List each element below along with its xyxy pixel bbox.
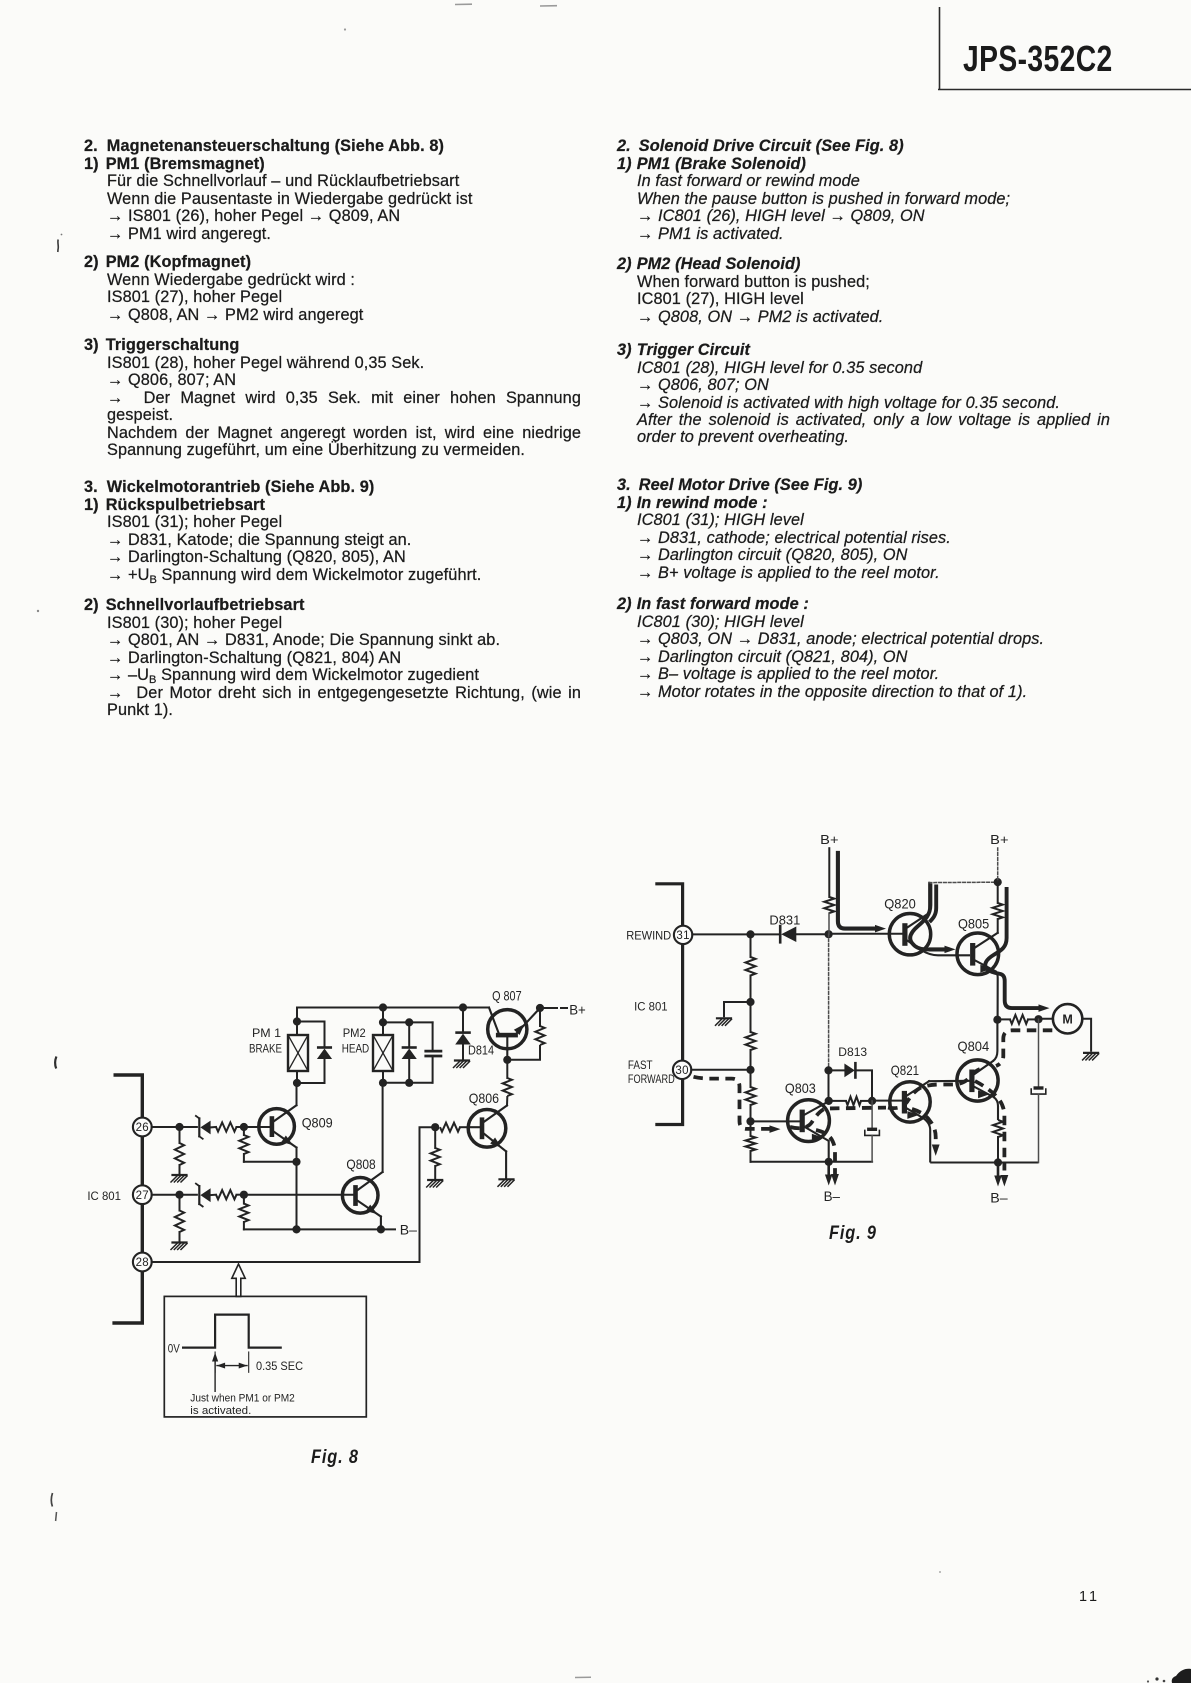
IC801 bus bracket (Fig.8) [112,1075,142,1323]
svg-text:HEAD: HEAD [342,1042,370,1056]
svg-text:Q805: Q805 [958,916,989,932]
svg-text:27: 27 [136,1190,149,1202]
pin 27 [133,1185,152,1204]
node Q807 base [503,1056,511,1064]
ground (divider) [716,1018,732,1025]
wire D813 anode to collector node [828,1070,830,1101]
left column German text [84,138,473,243]
node PM2 top rail [379,1003,387,1011]
resistor to ground (pin26) [175,1127,184,1174]
node PM1 bottom [293,1079,301,1087]
resistor to ground (Q806 base) [431,1127,440,1179]
wire Q806 emitter to ground [505,1151,507,1178]
ground (Q806 emitter) [498,1179,514,1186]
resistor pin27 to B- line [239,1195,248,1230]
dashed FF path near motor [996,1030,1052,1066]
annotation arrow [212,1353,218,1392]
motor M [1053,1004,1082,1033]
svg-text:0V: 0V [168,1343,180,1356]
D831 label [769,913,800,928]
transistor Q807 [488,1008,540,1060]
resistor to ground (pin27) [175,1195,184,1242]
top supply rail Fig.8 [297,1008,489,1022]
svg-text:Q821: Q821 [891,1062,919,1078]
wire Q809 collector to PM1 [296,1083,298,1105]
dashed FF path through Q803 [790,1108,886,1129]
node motor resistor right [1034,1015,1042,1023]
pin 30 [673,1061,691,1079]
svg-text:M: M [1062,1013,1072,1027]
wire B+ left drop [828,848,830,897]
ground (motor) [1083,1053,1099,1060]
FAST FORWARD label [628,1059,675,1086]
figure captions [311,1447,359,1469]
B+ label right (Fig.9) [990,832,1008,847]
ground (pin27 resistor) [171,1243,187,1250]
REWIND label [626,930,671,943]
node Q806 base divider [431,1123,439,1131]
dashed FF branch to B- (left) [816,1130,839,1186]
resistor Q805 collector [993,882,1003,933]
annotation text [190,1393,294,1418]
svg-text:B+: B+ [569,1003,586,1018]
D814 label [468,1043,494,1058]
Q820 label [884,896,916,912]
node pin30 row [746,1066,754,1074]
wire Q808 collector to PM2 [382,1083,384,1172]
wire Q821 base [872,1100,902,1102]
svg-text:Q 807: Q 807 [492,988,522,1004]
B- arrow right solid [994,1163,1002,1187]
pin 31 [674,926,692,944]
svg-text:B–: B– [400,1223,418,1238]
svg-text:D814: D814 [468,1043,494,1058]
B- rail Fig.8 [244,1228,395,1230]
resistor Q807 base feed [503,1060,512,1106]
node D813 anode [824,1066,832,1074]
resistor motor feed [997,1015,1038,1024]
dashed FF path through Q821/Q804 [888,1068,983,1108]
dashed FF path pin30 [694,1077,781,1133]
Q803 label [785,1080,816,1096]
wire to ground stub [724,1002,751,1017]
resistor divider upper (pin31) [746,934,756,1002]
wire pin31 row [692,933,780,935]
wire Q803 base [751,1120,801,1122]
wire to motor [1039,1018,1053,1020]
zener diode (pin26) [196,1116,216,1139]
transistor Q820 [889,883,970,956]
svg-text:D813: D813 [838,1045,867,1059]
node B- / emitter line [292,1225,300,1233]
Q821 label [891,1062,919,1078]
diode D831 [780,926,828,942]
pulse waveform [182,1315,282,1348]
PM1 label [249,1026,282,1056]
thick rewind path from B+ [838,851,886,932]
transistor Q804 [957,1020,998,1120]
node PM2 bottom [379,1079,387,1087]
node Q809 emitter [292,1148,300,1166]
B- label left [824,1189,841,1204]
B+ label Fig.8 [569,1003,586,1018]
B- label right [990,1191,1008,1206]
Q808 label [346,1156,375,1172]
0.35 SEC label [256,1359,303,1373]
svg-text:B–: B– [990,1191,1008,1206]
svg-text:Q804: Q804 [958,1038,990,1054]
zener diode (pin27) [196,1184,216,1207]
flyback diode (PM1) [297,1022,332,1084]
page number [1079,1589,1100,1605]
ground (Q806 base resistor) [427,1180,443,1187]
wire base Q809 [244,1126,270,1128]
resistor B+ left [824,897,834,913]
transistor Q806 [468,1106,507,1152]
resistor Q803 collector to Q821 base [829,1097,872,1105]
dashed FF path Q804 to B- [975,1081,1004,1158]
node emitter rail / B- left [825,1158,833,1166]
0.35 sec dimension arrows [217,1363,248,1369]
B- arrow right dashed [1001,1163,1009,1187]
svg-text:28: 28 [136,1257,149,1269]
svg-text:PM2: PM2 [343,1026,366,1040]
wire to Q820 base [829,933,903,935]
node B+ rail Fig.8 [536,1004,544,1012]
IC801 label (Fig.9) [634,1001,668,1014]
resistor Q804 emitter [993,1120,1003,1163]
svg-text:Q806: Q806 [469,1090,499,1106]
node pin27/R [175,1191,183,1199]
capacitor (PM2) [426,1022,441,1082]
Q807 label [492,988,522,1004]
dashed FF branch Q821 emitter arrow [912,1109,940,1156]
svg-text:26: 26 [136,1122,149,1134]
B- label Fig.8 [400,1223,418,1238]
B+ label left (Fig.9) [820,832,838,847]
wire pin30 row [691,1069,750,1071]
wire pin26 row [152,1126,197,1128]
svg-text:B+: B+ [820,832,838,847]
svg-text:Q808: Q808 [346,1156,375,1172]
node Q803 base row [746,1117,754,1125]
node Q809 base [240,1123,248,1131]
emitter return rail (right) [930,1162,1038,1164]
transistor Q803 [788,1100,830,1162]
node B- right [994,1158,1002,1166]
D813 label [838,1045,867,1059]
capacitor (Q821 base) [865,1101,880,1162]
svg-text:B+: B+ [990,832,1008,847]
svg-text:Q803: Q803 [785,1080,816,1096]
wire motor to ground [1082,1019,1091,1052]
wire emitter node down to B- line [296,1162,298,1230]
diode D813 [829,1063,873,1101]
node Q808 base branch [240,1191,248,1199]
node pin26/R [175,1123,183,1131]
thick rewind path through Q820 [910,884,955,954]
resistor series (pin27) [216,1190,244,1199]
Q806 label [469,1090,499,1106]
svg-text:Q809: Q809 [302,1115,333,1131]
svg-text:31: 31 [676,930,689,942]
node B+ / D831 anode [825,930,833,938]
zener diode D814 [455,1008,471,1060]
svg-text:Just when PM1 or PM2: Just when PM1 or PM2 [190,1393,294,1405]
svg-text:is activated.: is activated. [190,1405,251,1417]
wire pin27 row [152,1194,197,1196]
pin 28 [133,1253,152,1272]
node Q808 emitter on B- [377,1225,385,1233]
node divider top [746,930,754,938]
svg-text:IC 801: IC 801 [87,1189,121,1203]
wire Q820 collector top rail [929,881,998,883]
B- arrow left solid [825,1162,833,1186]
node B+ right [994,878,1002,886]
svg-text:FORWARD: FORWARD [628,1073,675,1086]
pulse width ticks [215,1352,249,1372]
pin 26 [133,1118,152,1137]
transistor Q821 [890,1081,970,1163]
svg-text:PM 1: PM 1 [252,1026,281,1040]
wire pin28 row [152,1261,420,1263]
resistor pin30 to Q803 base [746,1070,756,1122]
svg-text:Q820: Q820 [884,896,916,912]
PM2 label [342,1026,370,1056]
thick rewind path through Q805 [985,887,1049,1012]
solenoid PM1 [288,1017,308,1083]
resistor Q807 emitter-base [507,1008,544,1060]
wire resistor to D813 node [828,913,830,1070]
trigger arrow into pin28 line [232,1264,245,1296]
svg-text:0.35 SEC: 0.35 SEC [256,1359,303,1373]
capacitor (motor damper) [1031,1019,1046,1162]
svg-text:BRAKE: BRAKE [249,1042,282,1056]
Q809 label [302,1115,333,1131]
transistor Q808 [342,1172,382,1229]
right column English text [617,138,1010,243]
0V label [168,1343,180,1356]
wire B+ right drop [997,848,999,882]
IC801 label (Fig.8) [87,1189,121,1203]
transistor Q805 [957,933,999,1020]
ground (pin26 resistor) [171,1175,187,1182]
solenoid PM2 [373,1008,393,1083]
IC801 bus bracket (Fig.9) [655,884,682,1125]
svg-text:B–: B– [824,1189,841,1204]
svg-text:30: 30 [675,1065,688,1077]
ground (D814) [454,1061,470,1068]
node divider mid [746,998,754,1006]
svg-text:FAST: FAST [628,1059,653,1072]
wire base Q808 [244,1194,354,1196]
svg-text:D831: D831 [769,913,800,928]
waveform box [164,1296,366,1417]
wire pin28 riser to Q806 [420,1127,436,1262]
resistor series Q806 base [440,1123,468,1132]
header box [0,0,1191,100]
flyback diode (PM2) [383,1018,433,1087]
resistor series (pin26) [216,1122,244,1131]
resistor Q803 base to emitter rail [746,1121,756,1161]
Q804 label [958,1038,990,1054]
emitter return rail (left) [751,1161,873,1163]
node Q821 base [868,1097,876,1105]
transistor Q809 [259,1105,297,1148]
svg-text:REWIND: REWIND [626,930,671,943]
svg-text:IC 801: IC 801 [634,1001,668,1014]
node D814 rail [459,1003,467,1011]
node motor resistor left [993,1016,1001,1024]
B+ terminal Fig.8 [540,1007,567,1009]
node Q803 collector [825,1097,833,1105]
Q805 label [958,916,989,932]
resistor divider lower [746,1002,756,1070]
resistor base-emitter Q809 [239,1127,296,1162]
